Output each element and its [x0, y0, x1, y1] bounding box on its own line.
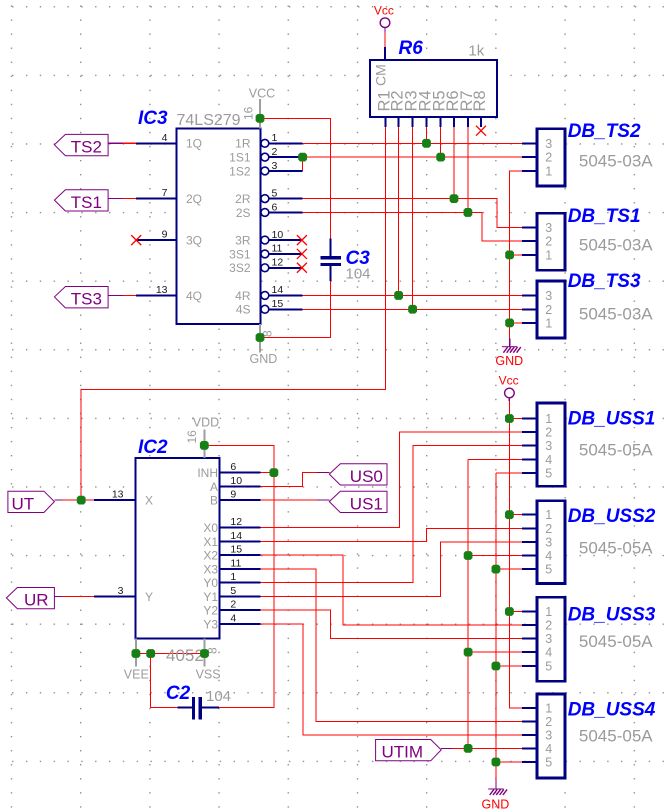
svg-text:3: 3 — [545, 289, 552, 303]
wire net US1: IC2 pin B to port — [261, 499, 317, 501]
wire stub DB_TS3 pin1 — [510, 322, 522, 324]
DB_USS1 pin 4 — [522, 453, 552, 467]
DB_USS3 pin 1 — [522, 605, 552, 619]
DB_TS2 pin 3 — [522, 137, 552, 151]
svg-text:R8: R8 — [471, 90, 489, 111]
svg-text:9: 9 — [230, 489, 236, 501]
svg-text:7: 7 — [162, 187, 168, 199]
wire IC3 pin2 to pin3 tie — [302, 157, 304, 171]
svg-text:2: 2 — [545, 618, 552, 632]
connector DB_USS2 body — [537, 501, 565, 584]
svg-text:4: 4 — [230, 612, 236, 624]
wire R6 column to net 2R — [453, 127, 455, 199]
svg-text:B: B — [210, 494, 218, 508]
svg-text:1: 1 — [545, 316, 552, 330]
port US0 — [317, 464, 387, 486]
R6 pin R5 — [431, 90, 449, 127]
capacitor C3 — [321, 239, 341, 281]
wire stub DB_USS4 pin5 — [496, 761, 522, 763]
svg-text:US0: US0 — [350, 467, 383, 486]
svg-text:14: 14 — [272, 284, 284, 296]
junction net 1R / R4 junction — [422, 139, 431, 148]
svg-text:3S1: 3S1 — [229, 247, 251, 261]
DB_TS2 pin 1 — [522, 164, 552, 178]
wire stub DB_USS3 pin4 — [468, 651, 522, 653]
svg-text:1: 1 — [230, 571, 236, 583]
IC2 pin 11 (X3) — [203, 557, 260, 576]
svg-text:DB_USS3: DB_USS3 — [568, 605, 656, 626]
junction DB_USS3 pin5 junction — [492, 662, 501, 671]
power port GND (DB_TS bus earth) — [495, 338, 523, 368]
svg-text:UT: UT — [12, 494, 35, 513]
svg-text:Y3: Y3 — [203, 617, 218, 631]
wire TS3 port stub — [123, 294, 136, 296]
IC2 pin 12 (X0) — [203, 516, 260, 535]
op IC3 body — [177, 129, 261, 325]
wire net Y2: IC2 pin2 to DB_USS3 pin3 — [261, 610, 522, 638]
svg-text:3R: 3R — [235, 234, 251, 248]
no-connect IC3 pin10 — [297, 235, 307, 245]
DB_USS3 pin 2 — [522, 618, 552, 632]
svg-text:Y: Y — [145, 590, 153, 604]
connector DB_TS3 body — [537, 281, 565, 338]
svg-text:1R: 1R — [235, 137, 251, 151]
port UT — [8, 491, 63, 513]
svg-text:6: 6 — [272, 201, 278, 213]
DB_USS2 pin 5 — [522, 563, 552, 577]
wire net UR: port to IC2 pin Y — [63, 595, 94, 597]
svg-text:VSS: VSS — [196, 667, 221, 681]
svg-text:15: 15 — [272, 298, 284, 310]
svg-text:2S: 2S — [236, 206, 251, 220]
IC2 pin 7 VEE — [124, 638, 149, 681]
DB_USS4 pin 3 — [522, 729, 552, 743]
IC3 pin 11 (3S1) — [229, 243, 302, 262]
svg-text:5045-05A: 5045-05A — [579, 539, 653, 558]
R6 pin R6 — [444, 90, 462, 127]
wire net 4S: IC3 pin15 to DB_TS3 pin2 — [303, 308, 522, 310]
junction IC2 VDD junction — [200, 441, 209, 450]
wire net UT: port to IC3 R1 pull-up — [81, 127, 385, 500]
svg-text:2: 2 — [545, 425, 552, 439]
svg-text:4052: 4052 — [166, 646, 204, 665]
power port Vcc (DB_USS bus) — [499, 374, 519, 402]
svg-text:5: 5 — [545, 466, 552, 480]
connector DB_TS1 body — [537, 213, 565, 270]
DB_USS2 pin 4 — [522, 549, 552, 563]
svg-text:6: 6 — [230, 461, 236, 473]
svg-text:X1: X1 — [203, 535, 218, 549]
IC3 pin 13 (4Q) — [136, 284, 202, 303]
svg-text:Y0: Y0 — [203, 576, 218, 590]
wire net 1R: IC3 pin1 to DB_TS2 pin3 — [303, 142, 522, 144]
resistor network R6 body — [370, 60, 497, 117]
svg-text:3S2: 3S2 — [229, 261, 251, 275]
svg-text:A: A — [210, 480, 218, 494]
svg-text:10: 10 — [230, 475, 242, 487]
svg-text:2Q: 2Q — [186, 192, 202, 206]
connector DB_USS4 body — [537, 694, 565, 778]
svg-text:14: 14 — [230, 530, 242, 542]
svg-text:3: 3 — [545, 439, 552, 453]
svg-text:UTIM: UTIM — [382, 743, 424, 762]
svg-text:5045-03A: 5045-03A — [579, 305, 653, 324]
svg-text:DB_USS4: DB_USS4 — [568, 700, 656, 721]
svg-text:2: 2 — [272, 146, 278, 158]
wire net 2S: IC3 pin6 to DB_TS1 pin2 — [303, 212, 522, 241]
DB_USS1 pin 1 — [522, 412, 552, 426]
IC2 pin 14 (X1) — [203, 530, 260, 549]
svg-text:1: 1 — [272, 132, 278, 144]
DB_USS3 pin 5 — [522, 660, 552, 674]
svg-text:1Q: 1Q — [186, 137, 202, 151]
svg-text:16: 16 — [241, 106, 255, 120]
IC2 pin 9 (B) — [210, 489, 261, 508]
wire UTIM port to bus and DB_USS4 pin4 — [453, 747, 522, 749]
junction DB_USS4 pin5 junction — [492, 758, 501, 767]
wire R3 column to net 4S — [412, 127, 414, 309]
svg-text:CM: CM — [373, 64, 389, 86]
DB_TS3 pin 3 — [522, 289, 552, 303]
svg-text:1: 1 — [545, 605, 552, 619]
DB_USS3 pin 3 — [522, 632, 552, 646]
no-connect IC3 pin9 — [131, 235, 141, 245]
power port Vcc (R6) — [374, 4, 394, 33]
junction net 4R / R2 junction — [394, 291, 403, 300]
junction VSS pin junction — [200, 649, 209, 658]
R6 pin 9 CM — [373, 47, 389, 86]
svg-text:1S1: 1S1 — [229, 151, 251, 165]
svg-text:1: 1 — [545, 164, 552, 178]
wire R7 column to net 2S — [467, 127, 469, 212]
junction net 1S / R5 junction — [436, 153, 445, 162]
junction VSS rail junction — [146, 649, 155, 658]
junction VEE junction — [132, 649, 141, 658]
svg-text:2: 2 — [545, 151, 552, 165]
svg-text:3: 3 — [545, 137, 552, 151]
R6 pin R8 — [471, 90, 489, 127]
mux IC2 body — [136, 458, 220, 638]
DB_TS2 pin 2 — [522, 151, 552, 165]
wire GND bus for DB_USS pin5s — [496, 473, 522, 780]
svg-text:16: 16 — [185, 430, 199, 444]
wire net X2: IC2 pin15 to DB_USS3 pin2 — [261, 555, 522, 625]
svg-text:4: 4 — [545, 646, 552, 660]
svg-text:VDD: VDD — [193, 415, 219, 429]
svg-text:2: 2 — [545, 235, 552, 249]
wire stub DB_USS3 pin5 — [496, 665, 522, 667]
svg-text:3Q: 3Q — [186, 234, 202, 248]
IC2 pin 2 (Y2) — [203, 599, 260, 618]
wire net X1: IC2 pin14 to DB_USS2 pin2 — [261, 528, 522, 541]
svg-text:1: 1 — [545, 702, 552, 716]
junction DB_USS2 pin1 junction — [505, 510, 514, 519]
junction net 2R / R6 junction — [450, 194, 459, 203]
connector DB_USS1 body — [537, 403, 565, 486]
svg-text:UR: UR — [24, 591, 49, 610]
svg-text:4: 4 — [545, 742, 552, 756]
IC2 pin 10 (A) — [210, 475, 261, 494]
svg-text:11: 11 — [272, 243, 283, 255]
svg-text:13: 13 — [112, 489, 124, 501]
svg-text:12: 12 — [272, 257, 284, 269]
wire VDD rail down to C2 — [204, 445, 274, 707]
IC2 pin 3 (Y) — [94, 585, 153, 604]
IC3 pin 3 (1S2) — [229, 160, 302, 179]
svg-text:4S: 4S — [236, 303, 251, 317]
svg-text:DB_USS2: DB_USS2 — [568, 506, 656, 527]
no-connect IC3 pin12 — [297, 263, 307, 273]
svg-text:4: 4 — [545, 549, 552, 563]
svg-text:US1: US1 — [350, 494, 383, 513]
R6 pin R4 — [417, 90, 435, 127]
wire TS1 port stub — [123, 198, 136, 200]
wire GND bus for DB_TS connector pin1s — [510, 171, 522, 338]
svg-text:3: 3 — [118, 585, 124, 597]
IC2 pin 6 (INH) — [197, 461, 260, 480]
junction DB_USS3 pin1 junction — [505, 607, 514, 616]
R6 pin R2 — [389, 90, 407, 127]
svg-text:2R: 2R — [235, 192, 251, 206]
wire net US0: IC2 pin A to port — [261, 473, 317, 487]
svg-text:2: 2 — [545, 303, 552, 317]
DB_USS4 pin 4 — [522, 742, 552, 756]
svg-text:DB_USS1: DB_USS1 — [568, 408, 656, 429]
IC3 pin 7 (2Q) — [136, 187, 202, 206]
wire stub DB_TS1 pin1 — [510, 254, 522, 256]
DB_USS2 pin 1 — [522, 508, 552, 522]
svg-text:3: 3 — [545, 632, 552, 646]
svg-text:4R: 4R — [235, 289, 251, 303]
svg-text:15: 15 — [230, 544, 242, 556]
IC2 pin 1 (Y0) — [203, 571, 260, 590]
DB_USS1 pin 3 — [522, 439, 552, 453]
svg-text:5: 5 — [545, 563, 552, 577]
wire Vcc to C3 top (VCC rail) — [260, 118, 331, 238]
IC3 pin 5 (2R) — [235, 187, 302, 206]
svg-text:5: 5 — [545, 756, 552, 770]
svg-text:Vcc: Vcc — [499, 374, 519, 388]
svg-text:104: 104 — [346, 266, 371, 283]
wire TS2 port stub — [123, 142, 136, 144]
DB_USS4 pin 1 — [522, 702, 552, 716]
DB_USS1 pin 2 — [522, 425, 552, 439]
svg-text:DB_TS3: DB_TS3 — [568, 271, 641, 292]
junction net 4S / R3 junction — [408, 305, 417, 314]
R6 pin R7 — [458, 90, 476, 127]
DB_TS3 pin 2 — [522, 303, 552, 317]
wire net 2R: IC3 pin5 to DB_TS1 pin3 — [303, 199, 522, 228]
wire stub DB_USS2 pin5 — [496, 568, 522, 570]
wire R2 column to net 4R — [398, 127, 400, 295]
svg-text:Y2: Y2 — [203, 604, 218, 618]
svg-text:1: 1 — [545, 412, 552, 426]
DB_USS3 pin 4 — [522, 646, 552, 660]
IC2 pin 8 VSS — [196, 638, 221, 681]
svg-text:3: 3 — [545, 221, 552, 235]
wire net X3: IC2 pin11 to DB_USS4 pin2 — [261, 569, 522, 722]
svg-text:1k: 1k — [468, 43, 484, 60]
wire net UTIM bus DB_USS pin4s — [468, 459, 522, 748]
IC3 pin 2 (1S1) — [229, 146, 302, 165]
IC3 pin 8 GND — [250, 324, 278, 366]
R6 pin R1 — [375, 90, 393, 127]
junction IC2 INH junction — [270, 468, 279, 477]
port US1 — [317, 491, 387, 513]
wire IC2 INH to VDD rail — [261, 472, 274, 474]
svg-text:GND: GND — [482, 797, 510, 811]
svg-text:IC3: IC3 — [138, 108, 168, 129]
IC3 pin 10 (3R) — [235, 229, 302, 248]
svg-text:4Q: 4Q — [186, 289, 202, 303]
svg-text:TS3: TS3 — [71, 290, 102, 309]
svg-text:X: X — [145, 494, 153, 508]
wire net Y0: IC2 pin1 to DB_USS1 pin3 — [261, 446, 522, 583]
wire net Y3: IC2 pin4 to DB_USS4 pin3 — [261, 624, 522, 735]
svg-text:X0: X0 — [203, 521, 218, 535]
svg-text:3: 3 — [545, 729, 552, 743]
svg-text:104: 104 — [206, 688, 231, 705]
no-connect R6 R8 — [476, 126, 486, 136]
svg-text:74LS279: 74LS279 — [177, 112, 241, 129]
junction IC3 GND junction — [256, 333, 265, 342]
svg-text:3: 3 — [545, 536, 552, 550]
junction DB_TS1 pin1 junction — [505, 251, 514, 260]
svg-text:R6: R6 — [399, 38, 424, 59]
no-connect IC3 pin11 — [297, 249, 307, 259]
IC3 pin 15 (4S) — [236, 298, 303, 317]
wire R4 pulldown column to net 1R — [426, 127, 428, 143]
wire VEE-VSS tie — [136, 653, 205, 655]
wire UT port to IC2 pin X — [63, 499, 94, 501]
svg-text:X3: X3 — [203, 562, 218, 576]
svg-text:5: 5 — [272, 187, 278, 199]
svg-text:Y1: Y1 — [203, 590, 218, 604]
DB_USS2 pin 2 — [522, 522, 552, 536]
svg-text:5045-05A: 5045-05A — [579, 441, 653, 460]
IC2 pin 5 (Y1) — [203, 585, 260, 604]
svg-text:5045-05A: 5045-05A — [579, 632, 653, 651]
capacitor C2 — [177, 697, 219, 720]
svg-text:VCC: VCC — [249, 86, 275, 100]
svg-text:5: 5 — [545, 660, 552, 674]
svg-text:VEE: VEE — [124, 667, 149, 681]
wire Vcc bus for DB_USS pin1s — [509, 401, 521, 708]
svg-text:Vcc: Vcc — [374, 4, 394, 18]
svg-text:12: 12 — [230, 516, 242, 528]
junction DB_USS1 pin1 junction — [505, 414, 514, 423]
DB_TS1 pin 2 — [522, 235, 552, 249]
junction DB_USS3 pin4 junction — [464, 648, 473, 657]
svg-text:2: 2 — [545, 715, 552, 729]
svg-text:10: 10 — [272, 229, 284, 241]
IC3 pin 1 (1R) — [235, 132, 302, 151]
IC2 pin 13 (X) — [94, 489, 153, 508]
power port GND (DB_USS bus earth) — [482, 780, 510, 811]
svg-text:DB_TS2: DB_TS2 — [568, 121, 641, 142]
wire VSS rail down to C2 left — [151, 654, 178, 708]
DB_TS3 pin 1 — [522, 316, 552, 330]
svg-text:INH: INH — [197, 466, 218, 480]
IC3 pin 16 VCC — [241, 86, 275, 128]
svg-text:IC2: IC2 — [138, 437, 168, 458]
IC3 pin 9 (3Q) — [136, 229, 202, 248]
svg-text:5: 5 — [230, 585, 236, 597]
junction net 2S / R7 junction — [464, 208, 473, 217]
junction net UT junction — [77, 496, 86, 505]
IC3 pin 14 (4R) — [235, 284, 302, 303]
port TS2 — [54, 134, 123, 156]
DB_USS4 pin 2 — [522, 715, 552, 729]
port TS3 — [54, 287, 123, 309]
IC3 pin 12 (3S2) — [229, 257, 302, 276]
wire C3 bottom to IC3 GND pin — [261, 281, 331, 338]
svg-text:TS1: TS1 — [71, 193, 102, 212]
junction UTIM junction — [464, 744, 473, 753]
wire Vcc power port to R6 CM pin — [384, 33, 386, 48]
DB_USS2 pin 3 — [522, 536, 552, 550]
wire net X0: IC2 pin12 to DB_USS1 pin2 — [261, 432, 522, 528]
junction DB_USS2 pin4 junction — [464, 551, 473, 560]
connector DB_USS3 body — [537, 597, 565, 681]
port UTIM — [376, 740, 453, 762]
svg-text:GND: GND — [250, 352, 278, 366]
wire stub DB_USS2 pin4 — [468, 555, 522, 557]
wire net Y1: IC2 pin5 to DB_USS2 pin3 — [261, 542, 522, 596]
svg-text:DB_TS1: DB_TS1 — [568, 206, 641, 227]
wire stub DB_USS1 pin1 — [509, 418, 521, 420]
svg-text:1: 1 — [545, 508, 552, 522]
wire stub DB_USS3 pin1 — [509, 611, 521, 613]
DB_USS4 pin 5 — [522, 756, 552, 770]
svg-text:11: 11 — [230, 557, 241, 569]
IC2 pin 4 (Y3) — [203, 612, 260, 631]
svg-text:1: 1 — [545, 248, 552, 262]
svg-text:C2: C2 — [166, 683, 191, 704]
junction DB_TS3 pin1 junction — [505, 319, 514, 328]
svg-text:2: 2 — [545, 522, 552, 536]
svg-text:9: 9 — [162, 229, 168, 241]
svg-text:1S2: 1S2 — [229, 164, 251, 178]
R6 pin R3 — [403, 90, 421, 127]
junction DB_USS2 pin5 junction — [492, 565, 501, 574]
wire net 4R: IC3 pin14 to DB_TS3 pin3 — [303, 294, 522, 296]
IC2 pin 16 VDD — [185, 415, 219, 458]
svg-text:5045-03A: 5045-03A — [579, 152, 653, 171]
svg-text:TS2: TS2 — [71, 138, 102, 157]
port TS1 — [54, 190, 123, 212]
IC3 pin 4 (1Q) — [136, 132, 202, 151]
svg-text:4: 4 — [545, 453, 552, 467]
svg-text:2: 2 — [230, 599, 236, 611]
svg-text:13: 13 — [156, 284, 168, 296]
svg-text:X2: X2 — [203, 549, 218, 563]
connector DB_TS2 body — [537, 129, 565, 186]
junction net 1S junction — [298, 153, 307, 162]
svg-text:3: 3 — [272, 160, 278, 172]
wire net 1S: IC3 pin2 to DB_TS2 pin2 — [303, 156, 522, 158]
wire R5 column to net 1S — [440, 127, 442, 157]
DB_TS1 pin 1 — [522, 248, 552, 262]
svg-text:4: 4 — [162, 132, 168, 144]
IC2 pin 15 (X2) — [203, 544, 260, 563]
svg-text:5045-05A: 5045-05A — [579, 727, 653, 746]
port UR — [6, 587, 62, 609]
svg-text:5045-03A: 5045-03A — [579, 235, 653, 254]
wire stub DB_USS2 pin1 — [509, 514, 521, 516]
junction IC3 VCC junction — [256, 114, 265, 123]
svg-text:GND: GND — [495, 354, 523, 368]
